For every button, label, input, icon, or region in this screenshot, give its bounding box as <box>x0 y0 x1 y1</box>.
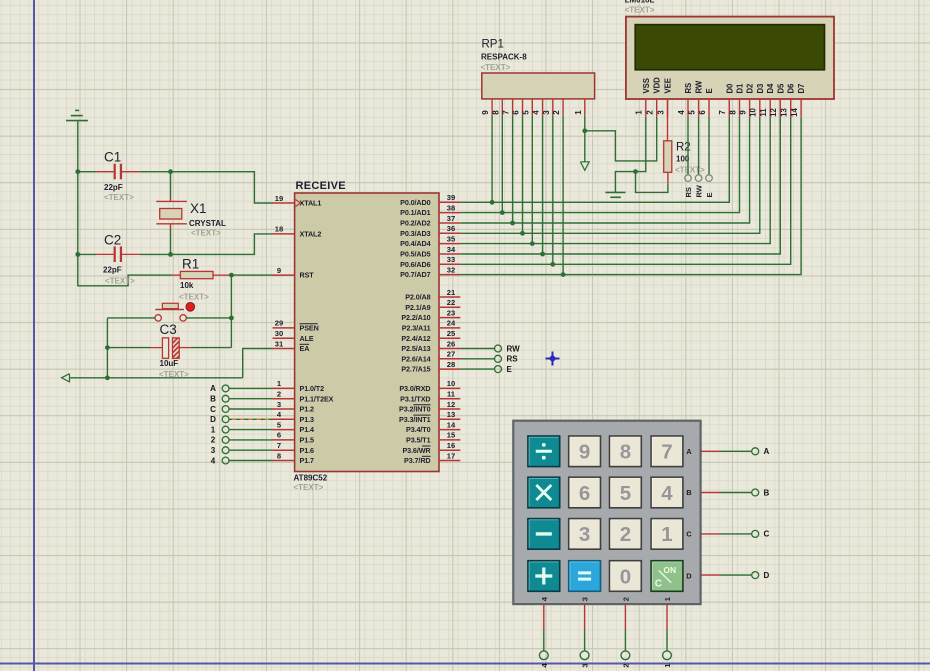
svg-text:9: 9 <box>579 441 590 464</box>
svg-text:AT89C52: AT89C52 <box>294 474 328 483</box>
terminal 2 (P1.5) <box>211 436 229 445</box>
svg-text:P1.5: P1.5 <box>300 436 314 445</box>
wire button right <box>186 317 231 319</box>
keypad pin row C <box>701 533 721 535</box>
svg-text:D: D <box>210 415 216 424</box>
label X1 <box>190 201 207 216</box>
svg-text:P3.0/RXD: P3.0/RXD <box>399 384 430 393</box>
wire P0 row to LCD data pin <box>460 117 770 244</box>
svg-text:10: 10 <box>447 379 455 388</box>
U1 pin 12 (P3.2/INT0) <box>399 400 460 414</box>
svg-text:33: 33 <box>447 255 455 264</box>
U1 pin 6 (P1.5) <box>273 431 314 445</box>
RP1 pin 6 <box>512 99 523 115</box>
terminal 1 (bottom) <box>663 651 672 668</box>
U1 pin 14 (P3.4/T0) <box>406 420 460 434</box>
origin marker (blue cross) <box>546 352 560 366</box>
value 22pF (C1) <box>104 183 123 192</box>
terminal B (P1.1) <box>210 395 229 404</box>
value 22pF (C2) <box>103 266 122 275</box>
wire to terminal 3 <box>584 630 586 651</box>
terminal RW (MCU side) <box>495 344 521 353</box>
svg-text:C2: C2 <box>104 233 121 248</box>
terminal 3 (P1.6) <box>211 446 229 455</box>
svg-text:11: 11 <box>759 108 768 117</box>
svg-text:37: 37 <box>447 214 455 223</box>
keypad pin column 4 <box>543 604 545 629</box>
wire crystal bottom lead <box>170 224 172 255</box>
property text C3 <box>159 370 189 379</box>
keypad pin column 1 <box>666 604 668 629</box>
U1 pin 27 (P2.6/A14) <box>401 350 460 364</box>
LCD pin 12 (D5) <box>769 83 785 117</box>
RP1 pin 1 <box>574 99 585 115</box>
svg-text:3: 3 <box>579 523 590 546</box>
svg-text:RW: RW <box>695 80 704 93</box>
svg-text:RW: RW <box>695 184 704 197</box>
svg-text:9: 9 <box>738 110 747 115</box>
junction C2 left <box>75 252 80 257</box>
wire LCD RW to terminal <box>698 117 700 175</box>
key 4 <box>651 477 683 508</box>
svg-text:P2.4/A12: P2.4/A12 <box>401 334 430 343</box>
value CRYSTAL <box>189 219 226 228</box>
key plus <box>528 561 560 592</box>
RP1 pin 2 <box>552 99 563 115</box>
wire to terminal A <box>721 450 752 452</box>
svg-text:32: 32 <box>447 265 455 274</box>
LCD LM016L body <box>626 17 834 99</box>
svg-text:LM016L: LM016L <box>625 0 655 5</box>
svg-text:C3: C3 <box>160 322 177 337</box>
terminal 1 (P1.4) <box>211 425 229 434</box>
svg-text:P0.1/AD1: P0.1/AD1 <box>400 208 430 217</box>
svg-text:1: 1 <box>211 425 216 434</box>
svg-text:RS: RS <box>684 187 693 197</box>
junction crystal top <box>168 169 173 174</box>
svg-text:P3.2/INT0: P3.2/INT0 <box>399 405 431 414</box>
label R1 <box>182 257 199 272</box>
svg-text:2: 2 <box>646 110 655 115</box>
svg-text:0: 0 <box>620 565 631 588</box>
LCD pin 11 (D4) <box>759 83 775 117</box>
property text C2 <box>105 277 135 286</box>
wire terminal C to P1.2 <box>229 408 273 410</box>
svg-text:<TEXT>: <TEXT> <box>191 229 221 238</box>
svg-text:26: 26 <box>447 339 455 348</box>
junction button right <box>229 316 234 321</box>
svg-text:2: 2 <box>277 390 281 399</box>
svg-text:14: 14 <box>790 108 799 117</box>
terminal 3 (bottom) <box>580 651 589 668</box>
junction C3 left <box>105 345 110 350</box>
wire LCD RS to terminal <box>687 117 689 175</box>
svg-text:3: 3 <box>581 597 590 601</box>
U1 pin 17 (P3.7/RD) <box>404 451 460 465</box>
resistor R1 <box>172 271 230 278</box>
U1 pin 31 (EA) <box>273 339 310 353</box>
LCD pin 8 (D1) <box>728 83 744 117</box>
svg-text:<TEXT>: <TEXT> <box>675 166 705 175</box>
svg-text:1: 1 <box>663 663 672 667</box>
svg-text:D: D <box>764 571 770 580</box>
svg-text:D: D <box>686 572 692 581</box>
svg-text:27: 27 <box>447 350 455 359</box>
svg-text:D3: D3 <box>756 83 765 94</box>
svg-text:D1: D1 <box>736 83 745 94</box>
svg-text:RS: RS <box>507 355 519 364</box>
U1 pin 34 (P0.5/AD5) <box>400 245 460 259</box>
svg-text:P0.4/AD4: P0.4/AD4 <box>400 239 430 248</box>
ground (near LCD) <box>605 192 625 197</box>
svg-text:D5: D5 <box>776 83 785 94</box>
key equals <box>569 561 601 592</box>
U1 pin 30 (ALE) <box>273 329 314 343</box>
svg-text:A: A <box>764 447 770 456</box>
svg-text:<TEXT>: <TEXT> <box>104 193 134 202</box>
terminal C (P1.2) <box>210 405 229 414</box>
button actuator (red knob) <box>186 303 195 312</box>
U1 pin 8 (P1.7) <box>273 451 314 465</box>
label RP1 <box>482 39 504 51</box>
keypad pin column 3 <box>584 604 586 629</box>
wire C3 left branch <box>107 318 242 378</box>
wire P2 to RW <box>460 348 494 350</box>
key 0 <box>610 561 642 592</box>
keypad row label A <box>686 447 692 456</box>
svg-text:12: 12 <box>447 400 455 409</box>
U1 pin 13 (P3.3/INT1) <box>399 410 460 424</box>
svg-text:C: C <box>764 530 770 539</box>
svg-text:24: 24 <box>447 319 456 328</box>
terminal E (MCU side) <box>495 365 513 374</box>
U1 pin 10 (P3.0/RXD) <box>399 379 460 393</box>
svg-text:4: 4 <box>211 456 216 465</box>
svg-text:P0.7/AD7: P0.7/AD7 <box>400 270 430 279</box>
power terminal (down arrow) <box>580 131 589 171</box>
svg-text:P0.3/AD3: P0.3/AD3 <box>400 229 430 238</box>
key 1 <box>651 519 683 550</box>
wire P0 row to LCD data pin <box>460 117 780 254</box>
svg-text:<TEXT>: <TEXT> <box>294 483 324 492</box>
terminal D (P1.3) <box>210 415 229 424</box>
svg-text:E: E <box>507 365 513 374</box>
svg-text:3: 3 <box>542 110 551 115</box>
svg-text:7: 7 <box>277 441 281 450</box>
crystal X1 <box>156 201 187 223</box>
keypad pin row D <box>701 574 721 576</box>
svg-text:A: A <box>210 384 216 393</box>
label C2 <box>104 233 121 248</box>
wire P0 row to LCD data pin <box>460 117 760 234</box>
wire R1 to RST pin <box>230 274 272 276</box>
svg-text:31: 31 <box>275 339 284 348</box>
svg-text:P2.6/A14: P2.6/A14 <box>401 354 430 363</box>
svg-text:P1.0/T2: P1.0/T2 <box>300 384 325 393</box>
wire C1 row to XTAL1 <box>140 172 273 203</box>
junction P0 row <box>490 200 495 205</box>
wire to terminal B <box>721 492 752 494</box>
U1 pin 33 (P0.6/AD6) <box>400 255 460 269</box>
U1 pin 21 (P2.0/A8) <box>405 288 460 302</box>
RP1 pin 3 <box>542 99 553 115</box>
svg-text:EA: EA <box>300 344 310 353</box>
clock input marker XTAL1 <box>296 200 301 207</box>
wire RP1 pin to P0 bus row <box>501 115 503 212</box>
wire VSS to ground <box>615 117 645 193</box>
svg-text:1: 1 <box>635 110 644 115</box>
svg-text:22pF: 22pF <box>104 183 123 192</box>
wire RP1 pin to P0 bus row <box>552 115 554 264</box>
svg-text:P3.5/T1: P3.5/T1 <box>406 436 431 445</box>
svg-text:6: 6 <box>698 110 707 115</box>
wire LCD E to terminal <box>708 117 710 175</box>
property text C1 <box>104 193 134 202</box>
RP1 pin 7 <box>502 99 513 115</box>
key ON/C <box>651 561 683 592</box>
junction VSS/R2 node <box>633 169 638 174</box>
U1 pin 32 (P0.7/AD7) <box>400 265 460 279</box>
wire P2 to E <box>460 368 494 370</box>
keypad pin row B <box>701 492 721 494</box>
wire RP1 pin1 to VDD rail <box>585 115 657 161</box>
junction crystal bottom <box>168 252 173 257</box>
property text LCD <box>625 6 655 15</box>
svg-text:P3.6/WR: P3.6/WR <box>402 446 431 455</box>
svg-text:3: 3 <box>277 400 281 409</box>
junction RST node <box>229 273 234 278</box>
terminal D (right) <box>752 571 770 580</box>
svg-text:P1.1/T2EX: P1.1/T2EX <box>300 394 334 403</box>
terminal B (right) <box>752 488 770 497</box>
LCD pin 5 (RW) <box>687 80 703 117</box>
wire terminal 3 to P1.6 <box>229 449 273 451</box>
svg-text:RECEIVE: RECEIVE <box>296 180 346 192</box>
LCD pin 4 (RS) <box>677 83 693 117</box>
svg-text:P2.5/A13: P2.5/A13 <box>401 344 430 353</box>
svg-text:9: 9 <box>277 266 281 275</box>
svg-text:4: 4 <box>677 110 686 115</box>
resistor pack RP1 body <box>482 73 595 99</box>
svg-text:C: C <box>686 530 692 539</box>
svg-text:D7: D7 <box>797 84 806 94</box>
svg-text:P3.1/TXD: P3.1/TXD <box>400 394 430 403</box>
svg-text:12: 12 <box>769 108 778 117</box>
terminal 2 (bottom) <box>621 651 630 668</box>
svg-text:11: 11 <box>447 390 456 399</box>
wire to terminal 2 <box>624 630 626 651</box>
U1 pin 22 (P2.1/A9) <box>405 298 460 312</box>
svg-text:D4: D4 <box>766 83 775 94</box>
junction P0 row <box>520 231 525 236</box>
keypad column label 4 <box>540 596 549 601</box>
key divide <box>528 436 560 467</box>
property text R2 <box>675 166 705 175</box>
svg-text:P0.5/AD5: P0.5/AD5 <box>400 250 430 259</box>
terminal A (right) <box>752 447 770 456</box>
U1 pin 25 (P2.4/A12) <box>401 329 460 343</box>
junction P0 row <box>550 262 555 267</box>
wire RP1 pin to P0 bus row <box>531 115 533 243</box>
svg-text:5: 5 <box>620 482 631 505</box>
svg-text:ALE: ALE <box>300 334 314 343</box>
key 3 <box>569 519 601 550</box>
U1 pin 2 (P1.1/T2EX) <box>273 390 334 404</box>
svg-text:XTAL1: XTAL1 <box>300 199 322 208</box>
LCD pin 1 (VSS) <box>635 78 651 117</box>
wire RP1 pin to P0 bus row <box>522 115 524 233</box>
wire P0 row to LCD data pin <box>460 117 801 275</box>
svg-text:4: 4 <box>661 482 673 505</box>
svg-text:D0: D0 <box>725 83 734 94</box>
wire to terminal D <box>721 574 752 576</box>
svg-text:2: 2 <box>552 110 561 115</box>
svg-text:23: 23 <box>447 308 455 317</box>
RP1 pin 8 <box>491 99 502 115</box>
U1 pin 16 (P3.6/WR) <box>402 441 460 455</box>
keypad pin row A <box>701 450 721 452</box>
svg-text:6: 6 <box>512 110 521 115</box>
value RESPACK-8 <box>481 53 527 62</box>
value 10uF <box>160 359 179 368</box>
label C3 <box>160 322 177 337</box>
value AT89C52 <box>294 474 328 483</box>
svg-text:35: 35 <box>447 234 456 243</box>
key 9 <box>569 436 601 467</box>
svg-text:XTAL2: XTAL2 <box>300 230 322 239</box>
LCD pin 10 (D3) <box>749 83 765 117</box>
wire P0 row to LCD data pin <box>460 117 749 223</box>
terminal E (LCD side) <box>705 175 714 198</box>
junction P0 row <box>561 272 566 277</box>
junction C1 left <box>75 169 80 174</box>
U1 pin 7 (P1.6) <box>273 441 314 455</box>
svg-text:<TEXT>: <TEXT> <box>179 293 209 302</box>
U1 pin 11 (P3.1/TXD) <box>400 390 460 404</box>
svg-text:2: 2 <box>211 436 216 445</box>
svg-text:RS: RS <box>684 83 693 94</box>
capacitor C3 <box>150 338 191 358</box>
key 7 <box>651 436 683 467</box>
svg-text:13: 13 <box>447 410 455 419</box>
wire P0 row to LCD data pin <box>460 117 790 265</box>
terminal RW (LCD side) <box>695 175 704 198</box>
svg-text:13: 13 <box>780 108 789 117</box>
terminal 4 (bottom) <box>539 651 548 668</box>
svg-text:VEE: VEE <box>664 78 673 93</box>
svg-text:ON: ON <box>663 565 676 575</box>
svg-text:28: 28 <box>447 360 455 369</box>
svg-text:8: 8 <box>728 110 737 115</box>
wire RP1 pin to P0 bus row <box>491 115 493 202</box>
svg-text:E: E <box>705 88 714 93</box>
RP1 pin 5 <box>521 99 532 115</box>
keypad column label 1 <box>663 597 672 601</box>
wire P0 row to LCD data pin <box>460 117 739 213</box>
RP1 pin 4 <box>532 99 543 115</box>
wire to terminal 4 <box>543 630 545 651</box>
svg-text:P1.7: P1.7 <box>300 456 314 465</box>
wire ground rail down-left with jog to R1 <box>78 122 173 286</box>
keypad row label B <box>686 488 692 497</box>
resistor R2 <box>664 99 672 184</box>
svg-text:A: A <box>686 447 692 456</box>
LCD pin 6 (E) <box>698 88 714 116</box>
U1 pin 23 (P2.2/A10) <box>401 308 460 322</box>
wire terminal 4 to P1.7 <box>229 460 273 462</box>
wire RP1 pin to P0 bus row <box>562 115 564 274</box>
key 5 <box>610 477 642 508</box>
wire bottom row to EA pin <box>243 349 273 378</box>
U1 pin 28 (P2.7/A15) <box>401 360 460 374</box>
LCD pin 2 (VDD) <box>646 77 662 117</box>
label C1 <box>104 150 121 165</box>
U1 pin 3 (P1.2) <box>273 400 314 414</box>
U1 pin 37 (P0.2/AD2) <box>400 214 460 228</box>
svg-text:7: 7 <box>502 110 511 115</box>
U1 pin 19 (XTAL1) <box>273 194 322 208</box>
svg-text:34: 34 <box>447 245 456 254</box>
svg-text:P2.2/A10: P2.2/A10 <box>401 313 430 322</box>
wire terminal D to P1.3 <box>229 418 273 420</box>
svg-text:39: 39 <box>447 193 455 202</box>
key 8 <box>610 436 642 467</box>
svg-text:P1.4: P1.4 <box>300 425 314 434</box>
svg-text:P0.0/AD0: P0.0/AD0 <box>400 198 430 207</box>
ground (left rail) <box>66 110 88 120</box>
svg-text:RP1: RP1 <box>482 39 504 51</box>
wire to terminal 1 <box>666 630 668 651</box>
svg-text:3: 3 <box>656 110 665 115</box>
value 10k <box>180 281 194 290</box>
U1 pin 24 (P2.3/A11) <box>402 319 461 333</box>
wire terminal A to P1.0 <box>229 387 273 389</box>
svg-text:29: 29 <box>275 319 283 328</box>
label LM016L <box>625 0 655 5</box>
U1 pin 4 (P1.3) <box>273 410 314 424</box>
junction bottom row <box>105 375 110 380</box>
svg-text:P3.4/T0: P3.4/T0 <box>406 425 431 434</box>
svg-text:P3.7/RD: P3.7/RD <box>404 456 430 465</box>
svg-text:2: 2 <box>620 523 631 546</box>
svg-text:10k: 10k <box>180 281 194 290</box>
wire C2 left to rail <box>78 253 96 255</box>
junction P0 row <box>510 221 515 226</box>
svg-text:P1.2: P1.2 <box>300 405 314 414</box>
label R2 <box>676 142 691 154</box>
keypad row label C <box>686 530 692 539</box>
svg-text:CRYSTAL: CRYSTAL <box>189 219 226 228</box>
property text RP1 <box>481 63 511 72</box>
property text U1 <box>294 483 324 492</box>
svg-text:B: B <box>764 488 770 497</box>
label RECEIVE <box>296 180 346 192</box>
wire RP1 pin to P0 bus row <box>512 115 514 223</box>
svg-text:<TEXT>: <TEXT> <box>625 6 655 15</box>
svg-text:RW: RW <box>507 344 521 353</box>
svg-text:6: 6 <box>579 482 590 505</box>
wire RST node down to button/C3 <box>230 275 232 348</box>
svg-text:P2.3/A11: P2.3/A11 <box>402 324 431 333</box>
svg-text:30: 30 <box>275 329 283 338</box>
wire button left <box>107 317 155 319</box>
terminal arrow (left) <box>62 374 108 382</box>
wire P0 row to LCD data pin <box>460 117 729 203</box>
wire C3 right to RST node <box>191 347 232 349</box>
svg-text:P2.0/A8: P2.0/A8 <box>405 293 430 302</box>
svg-text:10: 10 <box>749 108 758 117</box>
svg-text:B: B <box>686 488 692 497</box>
